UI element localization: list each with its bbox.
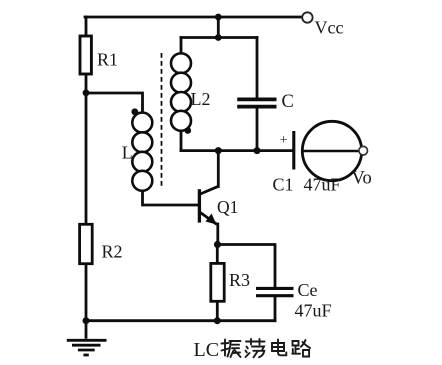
junction dot R1-R2 node <box>83 89 90 96</box>
Vcc terminal <box>302 12 312 22</box>
svg-text:R3: R3 <box>229 270 250 290</box>
wire Ce bottom to bottom rail <box>274 297 277 321</box>
transistor Q1 emitter arrowhead <box>206 214 217 225</box>
svg-text:Vcc: Vcc <box>315 18 344 38</box>
svg-text:R1: R1 <box>97 50 118 70</box>
wire branch to capacitor C top <box>256 38 259 99</box>
resistor R2 <box>80 224 93 263</box>
wire top supply rail <box>85 16 302 19</box>
wire branch rail to L2 and C <box>181 36 257 39</box>
svg-text:C1: C1 <box>273 175 294 195</box>
wire mid rail (tank to C1) <box>181 149 292 152</box>
wire capacitor C bottom to mid rail <box>256 107 259 151</box>
wire L2 bottom down to mid rail <box>180 131 183 151</box>
wire R2 bottom to ground rail <box>85 264 88 321</box>
resistor R3 <box>211 263 224 301</box>
output transducer diaphragm line <box>303 150 361 153</box>
wire node B to L1 top <box>86 93 143 113</box>
svg-text:C: C <box>282 92 294 112</box>
junction dot mid rail / capacitor C <box>254 147 261 154</box>
wire emitter node to Ce top <box>217 245 275 288</box>
wire R1 bottom to R2 top <box>85 74 88 225</box>
junction dot emitter node <box>214 241 221 248</box>
inductor L1 <box>132 113 152 191</box>
junction dot bottom rail / R3 <box>214 317 221 324</box>
output transducer Vo <box>302 121 361 180</box>
resistor R1 <box>80 36 91 74</box>
svg-text:47uF: 47uF <box>295 301 332 321</box>
output terminal <box>359 146 368 155</box>
wire top rail drop to L2/C branch <box>217 17 220 38</box>
wire branch to L2 top <box>180 38 183 54</box>
wire emitter drop <box>216 224 219 245</box>
svg-text:LC: LC <box>194 339 220 361</box>
inductor L2 <box>171 53 191 131</box>
transistor Q1 <box>199 186 218 224</box>
caption character 路 <box>292 340 310 357</box>
junction dot branch rail <box>215 34 222 41</box>
wire L1 bottom to transistor base <box>143 191 198 206</box>
svg-text:+: + <box>280 133 288 148</box>
wire bottom rail <box>86 319 275 322</box>
junction dot bottom rail left <box>83 317 90 324</box>
junction dot L1 top <box>131 108 138 115</box>
junction dot top rail <box>215 14 222 21</box>
wire emitter node to R3 top <box>216 245 219 264</box>
wire R3 bottom to bottom rail <box>216 301 219 320</box>
capacitor C1 <box>292 131 295 170</box>
svg-text:Q1: Q1 <box>217 197 238 217</box>
junction dot L2 bottom <box>185 127 192 134</box>
caption character 荡 <box>246 339 265 357</box>
ground <box>67 321 107 355</box>
svg-text:Ce: Ce <box>298 280 318 300</box>
transformer core <box>161 53 163 188</box>
capacitor Ce <box>256 288 294 295</box>
svg-text:L2: L2 <box>191 89 211 109</box>
svg-text:R2: R2 <box>102 242 123 262</box>
wire left rail top (Vcc to R1) <box>85 17 88 36</box>
caption character 振 <box>222 340 241 358</box>
junction dot mid rail / collector <box>215 147 222 154</box>
caption character 电 <box>272 340 286 356</box>
svg-text:Vo: Vo <box>352 169 372 189</box>
wire collector drop <box>217 151 220 187</box>
capacitor C <box>237 99 276 106</box>
